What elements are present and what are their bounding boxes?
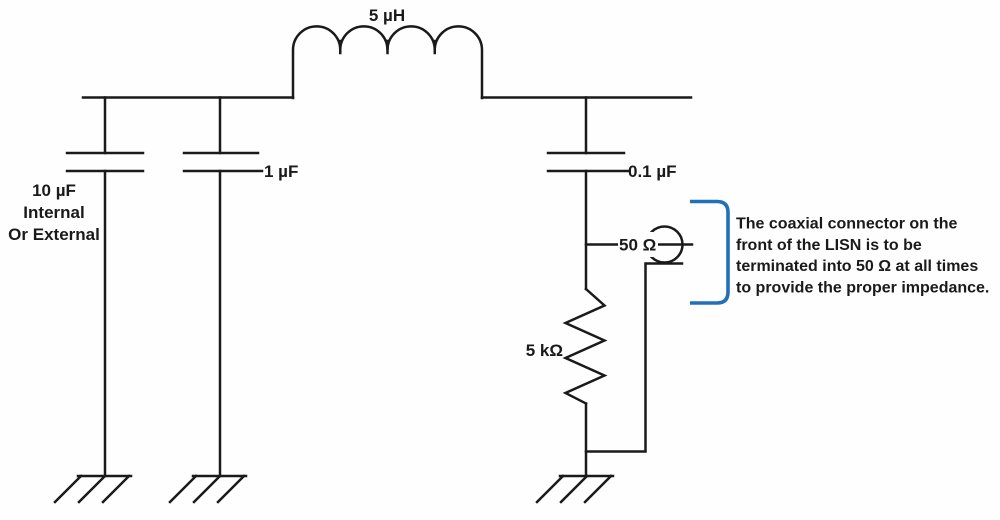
wire node B drop to C2: [219, 98, 222, 154]
coax connector J1 circle: [647, 227, 683, 263]
svg-text:50 Ω: 50 Ω: [619, 236, 656, 255]
svg-text:1 µF: 1 µF: [264, 162, 298, 181]
inductor cusp tick 1: [339, 41, 342, 53]
wire C3 to resistor: [585, 171, 588, 289]
svg-text:5 kΩ: 5 kΩ: [526, 341, 563, 360]
wire resistor to ground: [585, 404, 588, 477]
ground G3 hatch 1: [537, 476, 563, 502]
svg-text:The coaxial connector on the: The coaxial connector on the: [736, 216, 957, 233]
ground G2 bar: [193, 475, 246, 478]
svg-text:terminated into 50 Ω at all ti: terminated into 50 Ω at all times: [736, 258, 978, 275]
capacitor C3 0.1 uF top plate: [548, 152, 624, 155]
ground G1 hatch 1: [55, 476, 81, 502]
ground G3 bar: [560, 475, 613, 478]
ground G1 bar: [78, 475, 131, 478]
svg-text:to provide the proper impedanc: to provide the proper impedance.: [736, 280, 989, 297]
resistor R1 5 kOhm: [566, 289, 605, 404]
svg-text:Internal: Internal: [23, 203, 84, 222]
ground G1 hatch 3: [103, 476, 129, 502]
wire C2 to ground: [219, 171, 222, 476]
wire C1 to ground: [104, 171, 107, 476]
capacitor C1 10 uF bottom plate: [67, 170, 143, 173]
svg-text:0.1 µF: 0.1 µF: [628, 162, 677, 181]
wire top bus left segment: [83, 96, 293, 99]
wire node C drop to C3: [585, 98, 588, 154]
capacitor C3 0.1 uF bottom plate with label dash: [548, 170, 628, 173]
svg-text:5 µH: 5 µH: [369, 6, 405, 25]
ground G2 hatch 2: [194, 476, 220, 502]
wire tap to 50 ohm connector: [586, 243, 692, 246]
ground G3 hatch 2: [561, 476, 587, 502]
capacitor C2 1 uF top plate: [184, 152, 258, 155]
svg-text:10 µF: 10 µF: [32, 181, 76, 200]
ground G2 hatch 1: [170, 476, 196, 502]
capacitor C2 1 uF bottom plate with label dash: [184, 170, 262, 173]
wire top bus right segment: [482, 96, 691, 99]
callout bracket blue: [690, 202, 728, 304]
inductor L1 5 uH: [293, 26, 482, 98]
inductor cusp tick 2: [386, 41, 389, 53]
wire node A drop to C1: [104, 98, 107, 154]
svg-text:Or External: Or External: [8, 225, 100, 244]
ground G3 hatch 3: [585, 476, 611, 502]
wire connector shield L bend: [586, 264, 682, 452]
ground G1 hatch 2: [79, 476, 105, 502]
capacitor C1 10 uF top plate: [67, 152, 143, 155]
inductor cusp tick 3: [434, 41, 437, 53]
mask behind 50 ohm label: [618, 232, 658, 257]
svg-text:front of the LISN is to be: front of the LISN is to be: [736, 237, 922, 254]
ground G2 hatch 3: [218, 476, 244, 502]
